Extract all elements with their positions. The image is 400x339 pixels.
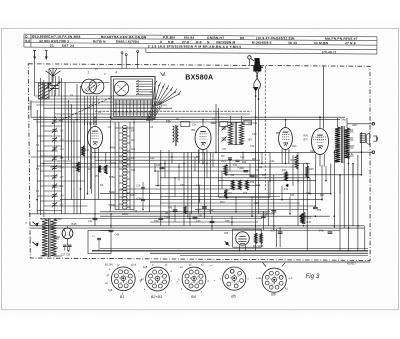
antenna terminal A2 arrow [45,51,47,60]
capacitor C34 [243,170,248,172]
mixer extra parts [228,157,232,159]
padder capacitor C3 [50,85,59,87]
mains input terminal a [32,222,37,226]
capacitor C28 [160,166,165,168]
capacitor C42 [328,231,333,233]
tube B5 output (UL) [312,129,329,155]
resistor R24 [295,155,298,169]
capacitor C38 [313,206,318,208]
oscillator coil assembly [110,120,112,212]
capacitor C46 box [88,231,111,254]
external stub E3 [137,51,139,53]
resistor horizontal P43 [286,184,288,186]
capacitor block row [181,122,190,127]
tube socket B2+B3 [146,267,170,291]
external stub E1 [121,52,123,54]
IF transformer S20/S21 [228,123,232,144]
resistor R17 [254,233,257,244]
band switch shield box [111,77,155,120]
mains input terminal b [32,242,37,246]
capacitor C37 [278,231,283,233]
junction dots extra [54,116,56,118]
speaker terminal bottom [372,151,375,154]
external stub E2 [125,54,127,56]
resistor R15 [238,180,241,190]
border junction dot [261,66,263,68]
pilot lamp [62,228,73,239]
coil S14 [173,126,175,142]
resistor R20 [224,190,227,199]
tube B6 indicator [233,229,262,247]
resistor 31k [77,162,80,172]
detector extra parts [173,209,178,211]
resistor R14 [231,180,234,190]
capacitor C26 [261,215,266,217]
wire top bus bundle [35,95,152,97]
mains antenna plug [248,56,251,59]
capacitor C44 [158,217,163,219]
antenna terminal A1 arrow [34,51,36,60]
resistor R16 [246,180,249,190]
capacitor C36 [271,210,276,212]
resistor R30 [285,172,288,182]
junction dots [40,116,42,118]
speaker plug [373,136,376,141]
tube socket B6 [262,268,286,292]
coil L1/L2 antenna [39,83,44,99]
wire bottom rails [100,248,368,250]
resistor R21 [301,214,304,224]
mechanical gang link [52,97,112,124]
capacitor C41 [93,217,98,219]
wire antenna top rail [49,68,249,70]
resistor P9 [98,166,101,173]
tube socket B4 [182,267,206,291]
capacitor C17 C18 [63,244,67,246]
loudspeaker [360,134,365,143]
tube B1 (UCH) [88,127,103,149]
wire dashed drop [264,66,266,190]
mixer section box [219,152,270,197]
tube socket B5 [223,267,246,290]
resistor R9 [104,165,107,174]
band switch fan SK1 [152,84,155,108]
title block table [24,34,377,54]
trimmer capacitor column [52,119,56,121]
resistor R12 [81,146,84,156]
speaker terminal top [372,123,375,126]
variable capacitor gang C1 [82,79,97,94]
wire under-gang block [84,96,86,125]
chassis border (dash-dot) [28,64,370,261]
wire left ladder rungs [40,125,62,127]
wire mid-band verticals [154,164,156,172]
resistor R18 [260,233,263,244]
power transformer [42,219,48,256]
capacitor C47 [202,206,207,208]
tube B2 (UF) [195,127,211,150]
wire fan drops [51,76,53,96]
wire center verticals [91,164,93,194]
antenna crown symbol [46,71,54,77]
chassis terminal [226,242,229,245]
capacitor C31 [250,174,255,176]
resistor R19 [224,165,227,176]
resistor R22/R23 [302,212,305,224]
wire plug drop junction [255,95,257,97]
wire left verticals [34,60,36,97]
wire HT drop [323,66,325,128]
output transformer S30 [335,127,340,162]
wire middle rails [92,151,316,153]
resistor R25 [306,166,309,178]
tube socket B1 [111,267,135,291]
tube B4 (UAF) [279,128,293,150]
